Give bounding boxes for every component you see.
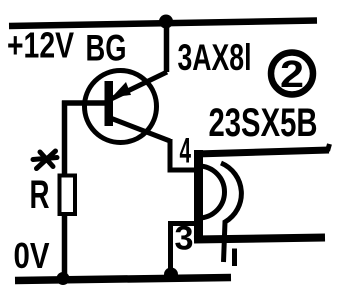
wire: 0V bottom rail xyxy=(15,278,231,281)
resistor R body xyxy=(60,176,76,215)
transistor BG emitter line to +12V xyxy=(109,72,167,100)
svg-text:3: 3 xyxy=(175,220,194,258)
node: junction of earphone pin 3 on 0V rail xyxy=(164,268,178,282)
svg-text:0V: 0V xyxy=(14,235,50,276)
svg-text:23SX5B: 23SX5B xyxy=(209,101,318,145)
transistor BG circle envelope xyxy=(85,71,157,143)
earphone left bar (socket edge) xyxy=(194,150,203,240)
wire: from top junction down to emitter xyxy=(164,21,170,72)
wire: left vertical down to resistor R xyxy=(62,101,68,177)
node: junction of emitter wire on +12V rail xyxy=(159,15,173,29)
transistor BG base bar xyxy=(105,81,114,126)
svg-text:3AX8l: 3AX8l xyxy=(178,37,252,78)
svg-text:+12V: +12V xyxy=(7,25,75,66)
circled figure number 2 xyxy=(271,53,313,97)
earphone top lead xyxy=(196,150,329,154)
svg-text:4: 4 xyxy=(180,132,192,171)
wire: collector down to earphone pin 4 xyxy=(170,139,196,170)
transistor BG emitter arrowhead (PNP, pointing to base) xyxy=(112,82,131,97)
wire: base wire to the left xyxy=(62,100,106,106)
svg-text:BG: BG xyxy=(86,28,127,69)
wire: 0V rail up to earphone pin 3 xyxy=(171,224,198,275)
transistor BG collector line xyxy=(109,118,170,142)
earphone capsule inner arc xyxy=(199,166,225,218)
svg-text:R: R xyxy=(30,173,50,217)
wire: resistor bottom to 0V rail xyxy=(62,214,68,277)
node: junction of resistor on 0V rail xyxy=(57,272,70,285)
svg-text:2: 2 xyxy=(280,54,304,96)
earphone top lead end hook xyxy=(328,144,330,151)
earphone bottom lead xyxy=(194,238,325,240)
earphone capsule outer arc with tail lead xyxy=(221,163,241,262)
earphone short lead tick xyxy=(232,249,237,267)
wire: +12V top rail xyxy=(9,21,317,27)
asterisk mark (select on test) xyxy=(33,151,57,169)
